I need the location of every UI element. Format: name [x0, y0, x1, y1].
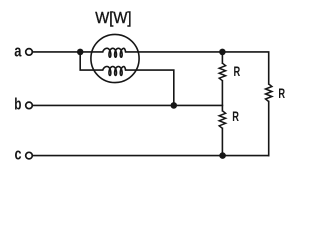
- svg-text:R: R: [278, 86, 285, 101]
- resistor R2 zigzag: [219, 111, 225, 129]
- wire: R2 bottom to line c: [221, 128, 223, 155]
- wire: voltage coil left lead from node on line a: [80, 52, 103, 70]
- wire: voltage coil right lead down to line b: [126, 70, 174, 105]
- terminal b: [26, 102, 33, 109]
- voltage coil of wattmeter: [103, 67, 126, 76]
- wire: right side below R3 down to line c level: [268, 102, 270, 156]
- svg-text:W[W]: W[W]: [95, 10, 131, 27]
- svg-text:c: c: [15, 145, 22, 164]
- terminal a: [26, 49, 33, 56]
- terminal c: [26, 152, 33, 159]
- wattmeter circle W: [91, 34, 139, 82]
- wire: phase a horizontal, left segment to coil: [32, 51, 102, 53]
- wire: phase b: [32, 104, 222, 106]
- svg-text:R: R: [234, 64, 241, 79]
- wire: phase c: [32, 155, 268, 157]
- svg-text:a: a: [14, 42, 22, 61]
- wire: middle chain, line a to R1: [221, 52, 223, 63]
- resistor R3 zigzag: [266, 84, 272, 102]
- svg-text:R: R: [232, 109, 239, 124]
- wire: R1 bottom through line b to R2 top: [221, 81, 223, 111]
- junction dot on line c: [219, 152, 226, 159]
- wire: phase a right segment and right-side drop to R3: [126, 52, 269, 84]
- junction dot on line b: [171, 102, 178, 109]
- junction dot on line a at R1: [219, 49, 226, 56]
- current coil of wattmeter: [103, 48, 126, 57]
- svg-text:b: b: [14, 95, 21, 114]
- junction dot on line a at voltage tap: [77, 49, 84, 56]
- resistor R1 zigzag: [219, 63, 225, 80]
